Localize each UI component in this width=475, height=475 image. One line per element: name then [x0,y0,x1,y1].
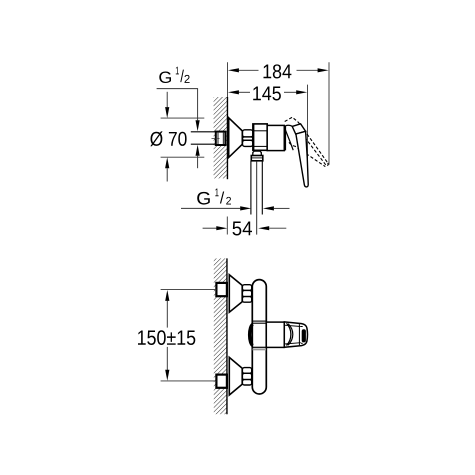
grip inner bottom line [284,343,301,344]
body capsule [252,280,266,394]
lever phantom peak (dashed open position) [285,117,301,125]
arrow right of 184 [318,68,329,72]
wall face line (top view) [226,97,228,179]
label 145 [253,87,281,101]
extension line above wall (left ext for 184/145) [226,62,228,97]
150 dimension line with arrows [165,290,169,381]
lever grip (seen from above) [284,322,307,347]
right extension line for 145 [307,85,309,163]
centerline dash at nut [212,137,220,139]
lever phantom tip arc [325,163,328,167]
label dia 70 [150,131,186,146]
grip crescent arcs [287,323,293,345]
arrow right of 145 [296,90,307,94]
upper escutcheon cone (bottom view) [229,275,242,313]
arrow left of 184 [228,68,239,72]
lever phantom upper edge [301,126,328,163]
150 lower extension line [161,380,217,382]
dimension 145 line [239,91,297,93]
right extension line for 184 [328,62,330,165]
grip end plate dark pad [302,329,306,342]
lever hub (solid) [292,124,305,134]
cap ring [284,126,286,151]
dia 70 lower arrow [165,157,169,181]
grip end plate notches [301,326,303,328]
label G 1/2 (lower) [197,188,231,204]
cap dome [285,125,294,150]
grip inner top line [284,325,301,326]
outlet pipe centerline / 54 extension [256,161,258,235]
lever blade (solid) [296,131,308,187]
lower coupling nut (bottom view) [242,368,251,385]
lower wall fitting square [216,375,227,388]
dimension 184 line [239,69,319,71]
arrow left of 145 [228,90,239,94]
dia 70 upper extension line [161,117,205,119]
label 54 [233,222,253,236]
cartridge block [266,322,284,347]
extension line below wall (left ext for 54) [226,217,228,235]
capsule section lines [252,321,266,349]
dome bulge crescent at capsule left [250,324,253,345]
escutcheon cone (top view) [229,118,243,158]
outlet neck [253,151,261,156]
hex wall nut [216,132,226,145]
valve body section B [253,124,267,150]
leader line from G 1/2 to wall nut [157,89,198,121]
hose union nut [251,156,262,161]
outlet pipe walls [251,161,262,215]
wall hatching (top view) [214,97,228,178]
wall face line (bottom view) [226,258,228,414]
dimension 54 left arrow [203,226,228,230]
dia 70 lower extension line [161,156,205,158]
supply pipe stub in wall [191,132,216,144]
lower escutcheon cone (bottom view) [229,357,242,395]
upper wall fitting square [216,283,227,296]
lever phantom lower edge [289,142,325,166]
wall hatching (bottom view) [214,258,227,414]
label 184 [264,64,292,78]
label G 1/2 (upper) [159,67,189,83]
coupling nut (top view) [243,130,253,147]
dia 70 upper arrow [165,92,169,118]
valve body section C [267,125,284,150]
upper coupling nut (bottom view) [242,285,251,303]
lever phantom inner edge [299,129,326,165]
up arrow of upper G 1/2 (below pipe stub) [196,145,200,169]
down arrow of upper G 1/2 [196,120,200,131]
left-pointing arrow at pipe (lower G 1/2) [263,206,290,210]
dimension 54 right arrow [258,226,286,230]
label 150+-15 [138,330,195,345]
grip end plate [298,324,300,345]
150 upper extension line [161,289,217,291]
leader of lower G 1/2 with right-pointing arrow [181,206,251,210]
